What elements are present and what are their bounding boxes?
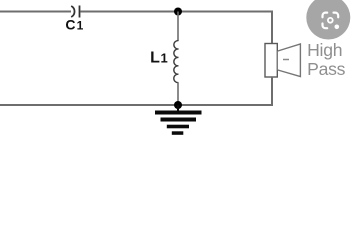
wire top-left segment [0, 11, 71, 13]
wire from top node down to inductor [177, 12, 179, 41]
wire right vertical top [271, 11, 273, 45]
wire top-middle segment [81, 11, 274, 13]
wire bottom horizontal [0, 104, 273, 106]
node bottom junction [174, 101, 182, 109]
icon google lens overlay [306, 0, 350, 40]
svg-text:High: High [307, 40, 342, 60]
label High Pass [307, 40, 346, 79]
node top junction [174, 8, 182, 16]
svg-text:1: 1 [77, 18, 84, 32]
svg-text:Pass: Pass [307, 59, 346, 79]
ground [155, 105, 202, 135]
capacitor C1 [71, 6, 79, 18]
label C1 [65, 16, 83, 32]
wire right vertical bottom [271, 77, 273, 106]
svg-text:C: C [65, 16, 75, 32]
label L1 [150, 50, 168, 67]
svg-text:L: L [150, 50, 160, 67]
svg-text:1: 1 [161, 51, 168, 66]
wire from inductor to bottom node [177, 82, 179, 105]
inductor L1 [174, 41, 179, 83]
speaker LS1 [265, 44, 300, 78]
